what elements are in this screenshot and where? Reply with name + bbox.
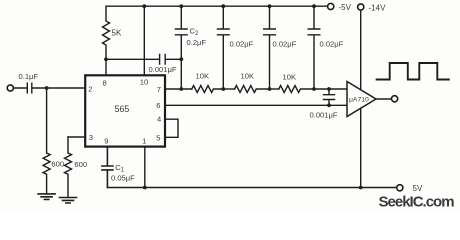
- wire pin8 riser: [105, 59, 107, 75]
- node junction cap-C2line: [179, 57, 183, 61]
- wire between resistors: [223, 88, 234, 90]
- resistor 5K vertical: [103, 6, 110, 59]
- svg-text:-5V: -5V: [339, 3, 352, 12]
- svg-text:0.02μF: 0.02μF: [230, 40, 254, 49]
- wire pin10 riser: [143, 6, 145, 75]
- svg-text:9: 9: [104, 137, 108, 146]
- svg-text:0.1μF: 0.1μF: [19, 72, 39, 81]
- wire -14V supply riser: [360, 10, 362, 90]
- wire input junction drop: [46, 88, 48, 153]
- svg-text:C2: C2: [190, 27, 199, 38]
- node junction rail-pin10: [142, 4, 146, 8]
- svg-text:0.02μF: 0.02μF: [320, 40, 344, 49]
- capacitor 0.001uF top horizontal: [106, 55, 181, 65]
- resistor 600 second: [65, 137, 72, 197]
- wire op-amp output: [376, 98, 391, 100]
- wire pin7 row: [165, 88, 192, 90]
- wire top supply rail: [106, 5, 328, 7]
- terminal input: [7, 85, 13, 91]
- svg-text:10K: 10K: [241, 72, 255, 81]
- svg-text:3: 3: [89, 133, 93, 142]
- wire pin4-pin5 loop: [165, 119, 178, 137]
- svg-text:600: 600: [51, 160, 64, 169]
- terminal output: [392, 96, 398, 102]
- capacitor 0.02uF third: [264, 6, 276, 89]
- capacitor C2 0.2uF: [176, 6, 188, 89]
- capacitor 0.1uF input: [14, 83, 86, 93]
- node junction C2-pin7row: [179, 87, 183, 91]
- svg-text:SeekIC.com: SeekIC.com: [379, 194, 455, 211]
- node junction rail-cap2: [221, 4, 225, 8]
- node junction pin1-rail: [143, 186, 147, 190]
- node junction rail-cap3: [268, 4, 272, 8]
- svg-text:-14V: -14V: [369, 4, 387, 13]
- svg-text:2: 2: [88, 85, 92, 94]
- wire pin1 drop: [144, 147, 146, 188]
- terminal -14V: [358, 4, 364, 10]
- svg-text:0.2μF: 0.2μF: [187, 38, 207, 47]
- wire op-amp V- drop: [360, 108, 362, 187]
- wire bottom rail: [107, 187, 396, 189]
- svg-text:10K: 10K: [196, 72, 210, 81]
- svg-text:1: 1: [142, 137, 146, 146]
- svg-text:6: 6: [156, 101, 160, 110]
- svg-text:8: 8: [103, 78, 107, 87]
- resistor 600 first: [43, 153, 50, 194]
- capacitor 0.02uF second: [218, 6, 230, 89]
- svg-text:4: 4: [157, 115, 161, 124]
- svg-text:5: 5: [156, 133, 160, 142]
- node junction rail-cap4: [312, 4, 316, 8]
- svg-text:10K: 10K: [283, 73, 297, 82]
- svg-text:5V: 5V: [413, 184, 423, 193]
- capacitor C1 0.05uF: [102, 147, 113, 188]
- node junction input: [45, 86, 49, 90]
- svg-text:μA710: μA710: [349, 97, 369, 104]
- wire between resistors 2: [270, 88, 279, 90]
- svg-text:565: 565: [115, 104, 130, 114]
- IC 565 box: [85, 75, 165, 146]
- svg-text:5K: 5K: [112, 29, 122, 38]
- node junction rail-C2: [179, 4, 183, 8]
- svg-text:0.001μF: 0.001μF: [310, 111, 338, 120]
- capacitor 0.02uF fourth: [308, 6, 320, 89]
- wire pin3: [68, 136, 85, 138]
- svg-text:600: 600: [74, 160, 87, 169]
- node junction capright-pin7row: [327, 87, 331, 91]
- node junction opamp-rail: [359, 186, 363, 190]
- resistor 10K first: [192, 86, 224, 93]
- ground first: [38, 194, 55, 200]
- resistor 10K second: [235, 86, 270, 93]
- svg-text:7: 7: [157, 85, 161, 94]
- node junction cap3-pin7row: [268, 87, 272, 91]
- svg-text:C1: C1: [115, 163, 124, 174]
- ground second: [60, 198, 77, 204]
- op-amp uA710: [347, 82, 376, 117]
- svg-text:0.05μF: 0.05μF: [111, 174, 135, 183]
- wire pin6 row: [165, 104, 347, 106]
- svg-text:10: 10: [140, 78, 148, 87]
- node junction cap2-pin7row: [221, 87, 225, 91]
- terminal -5V bottom: [397, 185, 403, 191]
- resistor 10K third: [279, 86, 347, 93]
- terminal +5V: [328, 3, 334, 9]
- node junction 5K-pin8: [104, 57, 108, 61]
- svg-text:0.02μF: 0.02μF: [273, 40, 297, 49]
- waveform square wave output: [377, 63, 449, 80]
- capacitor 0.001uF right vertical: [324, 89, 335, 105]
- svg-text:0.001μF: 0.001μF: [149, 65, 177, 74]
- node junction cap4-pin7row: [312, 87, 316, 91]
- node junction capright-pin6row: [327, 103, 331, 107]
